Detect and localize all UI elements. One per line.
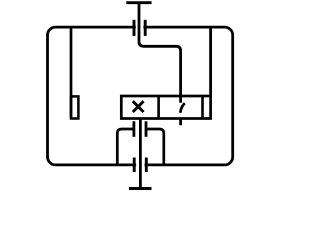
wire: right strap of inner feedthrough capacitor to shield bottom [147, 129, 164, 164]
shield enclosure (screened box) [48, 24, 233, 169]
filter box divider 1 [157, 96, 160, 119]
feedthrough capacitor C2 (inner, above shield bottom) [134, 121, 146, 137]
wire (right lead from shield top to filter box) [209, 27, 212, 97]
wire: center conductor from filter box down to bottom earth bar [139, 119, 142, 189]
X symbol in filter box left section [133, 101, 144, 112]
wire stub below filter box [179, 119, 182, 126]
filter box divider 2 [201, 96, 204, 119]
feedthrough capacitor C3 (plates in shield bottom wall) [134, 158, 146, 173]
terminal block (small rectangle at left lead end) [71, 96, 78, 118]
earth bar (top) [126, 1, 151, 4]
feedthrough capacitor C1 (top, plates in shield wall) [134, 20, 145, 36]
wire (left lead inside enclosure) [70, 27, 73, 117]
wire: top conductor from earth bar through feedthrough capacitor to filter box [139, 3, 181, 103]
filter box U1 (outline) [121, 96, 210, 119]
earth bar (bottom) [129, 187, 152, 190]
slash (switch blade) in filter box middle section [180, 103, 185, 113]
wire: left strap of inner feedthrough capacitor to shield bottom [117, 129, 132, 164]
